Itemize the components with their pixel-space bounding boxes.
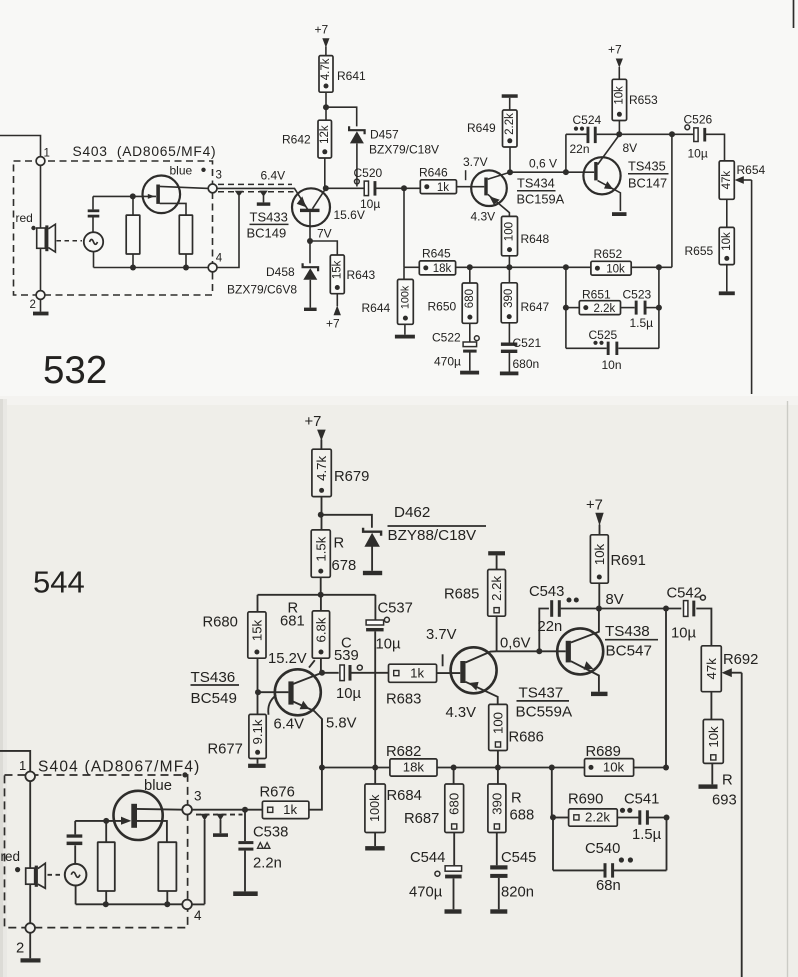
- svg-text:+7: +7: [586, 498, 603, 514]
- svg-text:TS434: TS434: [517, 176, 555, 191]
- TS435 ground bar: [612, 212, 627, 216]
- svg-text:R642: R642: [282, 133, 311, 147]
- svg-text:BC559A: BC559A: [516, 704, 573, 721]
- svg-text:4.3V: 4.3V: [471, 210, 496, 224]
- junction dot emitter/row: [319, 765, 325, 771]
- D458 lead and termination bar: [304, 280, 317, 311]
- svg-text:D462: D462: [394, 504, 430, 521]
- capacitor C539: [322, 665, 362, 681]
- R681 lead to collector node: [320, 658, 322, 673]
- dashed acoustic link: [57, 240, 83, 242]
- label 10u C539: [336, 686, 361, 702]
- label C543: [529, 584, 564, 600]
- svg-text:+7: +7: [326, 317, 340, 331]
- node 1: [36, 148, 50, 166]
- resistor R654: [719, 161, 734, 199]
- label R642: [282, 133, 311, 147]
- svg-text:BZX79/C18V: BZX79/C18V: [369, 143, 439, 157]
- TS433 base bar: [300, 209, 320, 212]
- svg-text:12k: 12k: [319, 125, 331, 144]
- node 4: [208, 253, 223, 272]
- svg-text:9.1k: 9.1k: [250, 719, 265, 744]
- label R684: [387, 788, 422, 804]
- measuring point symbol S404: [213, 814, 228, 837]
- svg-text:TS433: TS433: [250, 210, 288, 225]
- svg-text:1.5k: 1.5k: [313, 536, 328, 561]
- label TS436: [191, 669, 240, 686]
- svg-text:R: R: [722, 773, 733, 789]
- R685 lead to collector node: [496, 616, 498, 651]
- label BZX79/C18V: [369, 143, 439, 157]
- junction dot R650 top: [467, 264, 473, 270]
- bottom wire in S403: [94, 267, 209, 269]
- C538 marker triangles: [258, 843, 270, 849]
- resistor R688: [488, 768, 506, 833]
- microphone speaker symbol S404: [26, 863, 46, 888]
- label R643: [347, 268, 376, 282]
- svg-text:693: 693: [712, 793, 737, 809]
- wire 8V node to C526: [619, 133, 693, 135]
- svg-text:R641: R641: [337, 69, 366, 83]
- svg-text:2.2k: 2.2k: [585, 810, 610, 825]
- svg-text:10k: 10k: [603, 760, 625, 775]
- TS434 emitter arrow PNP: [489, 196, 500, 205]
- capacitor C522: [463, 323, 479, 352]
- svg-text:S403 (AD8065/MF4): S403 (AD8065/MF4): [73, 144, 217, 159]
- capacitor C542: [684, 595, 706, 616]
- wire feedback up to output node: [671, 134, 673, 267]
- svg-text:BC159A: BC159A: [517, 192, 565, 207]
- resistor R644: [398, 267, 414, 324]
- label 4.3V: [471, 210, 496, 224]
- svg-text:1.5µ: 1.5µ: [632, 827, 662, 843]
- label C522: [432, 331, 461, 345]
- svg-text:blue: blue: [170, 164, 193, 178]
- resistor R676: [262, 801, 309, 818]
- label D462: [394, 504, 430, 521]
- label 6.4V: [261, 169, 286, 183]
- gate arrow into FET channel S404: [121, 817, 131, 825]
- TS437 base bar: [460, 661, 465, 683]
- svg-text:R652: R652: [594, 247, 623, 261]
- svg-text:18k: 18k: [403, 760, 425, 775]
- wire to R690: [553, 817, 569, 819]
- C522 ground: [460, 353, 479, 375]
- resistor R689: [585, 759, 634, 777]
- svg-text:+7: +7: [315, 23, 329, 37]
- capacitor C520: [355, 179, 377, 196]
- wire base node down to D458: [309, 241, 311, 263]
- capacitor C521: [501, 323, 517, 353]
- label R692: [723, 652, 758, 668]
- TS436 collector lead: [293, 673, 322, 684]
- gate wire to FET S404: [75, 820, 121, 822]
- junction dot bias 1 bottom S404: [103, 901, 109, 907]
- capacitor C537: [366, 595, 389, 632]
- svg-text:TS435: TS435: [628, 159, 666, 174]
- svg-text:22n: 22n: [538, 619, 563, 635]
- svg-text:R646: R646: [419, 166, 448, 180]
- svg-text:R651: R651: [582, 288, 611, 302]
- node 3: [208, 170, 222, 193]
- svg-text:BC549: BC549: [191, 690, 237, 707]
- svg-text:3: 3: [216, 170, 222, 182]
- label 470u C522: [434, 355, 461, 369]
- transistor TS438 circle: [557, 628, 603, 674]
- transistor TS434 circle: [471, 170, 507, 206]
- label 0,6V: [500, 636, 531, 652]
- wire C539 to R683: [352, 672, 389, 674]
- capacitor C523: [621, 301, 659, 315]
- section number 544: [33, 565, 85, 600]
- FET drain wire to node 3 S404: [137, 808, 182, 811]
- label 10n C525: [602, 358, 622, 372]
- junction dot row right: [663, 765, 669, 771]
- zener diode D457: [349, 126, 365, 143]
- wire R646 to TS434 base: [457, 186, 485, 188]
- label D458: [266, 265, 295, 279]
- svg-text:R689: R689: [586, 744, 621, 760]
- zener diode D458: [303, 263, 319, 280]
- svg-text:R679: R679: [334, 469, 369, 485]
- svg-text:1: 1: [44, 148, 50, 160]
- resistor R680: [248, 595, 266, 658]
- shield connection arrow S404: [200, 814, 209, 821]
- svg-text:R: R: [334, 536, 345, 552]
- svg-text:539: 539: [334, 648, 359, 664]
- wire R692 to R693: [710, 692, 712, 720]
- bias resistor 2 (unlabeled) in S404: [158, 842, 176, 904]
- label TS438: [605, 623, 658, 640]
- C537 lead down to row: [374, 632, 376, 768]
- svg-text:R644: R644: [362, 301, 391, 315]
- svg-text:4.3V: 4.3V: [446, 705, 477, 721]
- label 10u C542: [671, 626, 696, 642]
- label 1.5u C523: [630, 316, 654, 330]
- TS433 base lead down: [309, 212, 311, 241]
- svg-text:2.2n: 2.2n: [253, 856, 282, 872]
- junction dot R690 branch: [549, 765, 555, 771]
- R678 lead down: [320, 577, 322, 595]
- label 680n C521: [513, 357, 540, 371]
- TS438 emitter arrow NPN: [584, 661, 594, 670]
- svg-text:C545: C545: [501, 850, 536, 866]
- wire shield arrow down to node 4: [192, 820, 205, 904]
- resistor R681: [312, 595, 329, 658]
- mic unit S404 dashed outline: [5, 775, 188, 928]
- label S403 (AD8065/MF4): [73, 144, 217, 159]
- svg-text:10k: 10k: [606, 263, 625, 275]
- junction dot bias 2 bottom S404: [164, 901, 170, 907]
- svg-text:6.8k: 6.8k: [314, 617, 329, 642]
- label C537: [378, 601, 413, 617]
- svg-text:red: red: [1, 849, 21, 864]
- svg-text:10µ: 10µ: [360, 197, 380, 211]
- wire C526 to R654: [706, 134, 725, 161]
- label 10u C520: [360, 197, 380, 211]
- label R 678: [332, 536, 357, 575]
- label C538: [253, 825, 288, 841]
- svg-text:TS438: TS438: [605, 623, 650, 640]
- wire from left edge to node 1 S404: [0, 751, 30, 772]
- label TS434: [517, 176, 556, 191]
- svg-text:R648: R648: [521, 232, 550, 246]
- junction dot bias resistor 1 bottom: [130, 265, 136, 271]
- svg-text:68n: 68n: [596, 878, 621, 894]
- svg-text:1k: 1k: [437, 182, 449, 194]
- scan page edge line bottom right: [787, 401, 789, 977]
- R644 ground: [395, 324, 415, 338]
- node 4 S404: [182, 900, 202, 923]
- svg-text:820n: 820n: [501, 885, 534, 901]
- D462 lead and termination bar: [363, 547, 382, 576]
- label 10u C526: [688, 147, 708, 161]
- resistor R643: [330, 255, 344, 294]
- TS438 base bar: [566, 641, 571, 663]
- svg-text:100k: 100k: [368, 794, 382, 822]
- gate arrow into FET channel: [148, 194, 155, 199]
- label 5.8V: [326, 716, 357, 732]
- svg-text:100: 100: [491, 712, 506, 734]
- svg-text:R683: R683: [386, 692, 421, 708]
- label 7V: [317, 227, 332, 241]
- R686 lead down: [497, 751, 499, 768]
- TS438 ground bar: [591, 692, 608, 696]
- transistor TS435 circle: [583, 157, 620, 194]
- svg-text:47k: 47k: [704, 658, 719, 680]
- resistor R692: [701, 646, 721, 692]
- label C525: [589, 328, 618, 342]
- TS438 emitter lead: [571, 661, 599, 692]
- signal wire node 3 to R676: [192, 809, 263, 811]
- feedback vertical 8V to row: [665, 609, 667, 768]
- junction dot feedback network right: [656, 264, 662, 270]
- svg-text:680n: 680n: [513, 357, 540, 371]
- label C526: [684, 113, 713, 127]
- svg-text:R643: R643: [347, 268, 376, 282]
- label 22n C524: [570, 142, 590, 156]
- svg-text:C520: C520: [354, 166, 383, 180]
- svg-text:10µ: 10µ: [336, 686, 361, 702]
- junction dot R641/R642/D457: [323, 104, 329, 110]
- TS433 collector lead: [313, 188, 326, 208]
- resistor R685: [488, 570, 506, 617]
- svg-text:R645: R645: [422, 247, 451, 261]
- bias resistor 1 (unlabeled) in S403: [126, 196, 140, 267]
- resistor R678: [311, 530, 330, 577]
- shield dashed line upper: [218, 183, 292, 185]
- label R 688: [510, 791, 535, 824]
- label 2.2n C538: [253, 856, 282, 872]
- signal wire node 3 to TS433 emitter: [217, 188, 308, 209]
- svg-text:1k: 1k: [283, 802, 297, 817]
- capacitor C538: [238, 810, 253, 892]
- wire R679 to R678: [321, 497, 323, 530]
- label R677: [208, 742, 243, 758]
- label BC149: [247, 226, 287, 241]
- R653 lead down: [618, 121, 620, 135]
- svg-text:1.5µ: 1.5µ: [630, 316, 654, 330]
- label 22n C543: [538, 619, 563, 635]
- resistor R679: [312, 449, 331, 496]
- supply +7 arrow above R653: [608, 43, 623, 80]
- wire R680 to R677 with base tap: [257, 658, 259, 714]
- junction dot gate wire / R bias 1: [130, 193, 136, 199]
- wire node 4 up to shield arrow: [217, 196, 239, 268]
- arrow into R692: [722, 668, 742, 677]
- zener diode D462: [363, 528, 381, 547]
- node 2: [30, 291, 45, 311]
- wire node 1 to speaker: [40, 165, 42, 228]
- label R650: [428, 300, 457, 314]
- arrow into R654: [735, 176, 752, 184]
- resistor R655: [719, 227, 734, 264]
- label BC549: [191, 690, 237, 707]
- svg-text:R684: R684: [387, 788, 422, 804]
- resistor R651: [566, 301, 621, 315]
- resistor R693: [703, 720, 723, 764]
- supply +7 arrow above R691: [586, 498, 604, 535]
- svg-text:10k: 10k: [706, 726, 721, 748]
- TS434 collector lead: [488, 172, 510, 179]
- shield dashed line lower: [218, 191, 294, 193]
- node 3 S404: [182, 789, 201, 815]
- junction dot TS433 base node 7V: [307, 238, 313, 244]
- junction dot R678/R681: [318, 592, 324, 598]
- wire AC source bottom: [93, 252, 95, 268]
- junction dot TS436 collector: [319, 670, 325, 676]
- svg-text:2: 2: [16, 941, 24, 957]
- svg-text:C541: C541: [624, 792, 659, 808]
- junction dot bias resistor 2 bottom: [183, 265, 189, 271]
- wire from left edge to node 1: [0, 136, 41, 157]
- junction dot output feedback 544: [663, 606, 669, 612]
- label TS433: [250, 210, 289, 225]
- svg-text:100k: 100k: [399, 285, 411, 309]
- label R653: [629, 93, 658, 107]
- svg-text:544: 544: [33, 565, 85, 600]
- wire base node to R643: [310, 241, 337, 255]
- wire to C524: [566, 133, 587, 135]
- svg-text:TS436: TS436: [191, 669, 236, 686]
- measuring point symbol 6.4V: [257, 191, 271, 206]
- junction dot C524 tap: [563, 169, 569, 175]
- label 6.4V: [274, 717, 305, 733]
- svg-text:D458: D458: [266, 265, 295, 279]
- capacitor C544: [435, 833, 462, 879]
- svg-text:C544: C544: [410, 850, 445, 866]
- TS435 emitter arrow NPN: [604, 181, 613, 189]
- scan mark top right corner: [793, 0, 795, 28]
- svg-text:2: 2: [30, 299, 36, 311]
- wire feedback row right: [631, 266, 672, 268]
- resistor R647: [501, 267, 517, 323]
- svg-text:470µ: 470µ: [434, 355, 461, 369]
- svg-text:TS437: TS437: [519, 685, 564, 702]
- label R646: [419, 166, 448, 180]
- wire R642 to collector node: [324, 158, 326, 187]
- label 3.7V with leader: [426, 627, 457, 666]
- shield connection arrow: [235, 191, 243, 197]
- svg-text:0,6 V: 0,6 V: [529, 157, 557, 171]
- ground below node 2 S404: [21, 933, 41, 963]
- wire feedback tap down: [403, 188, 405, 267]
- C538 ground: [233, 891, 258, 896]
- resistor R648: [502, 216, 518, 255]
- label R 681: [280, 601, 305, 630]
- svg-text:R676: R676: [260, 785, 295, 801]
- junction dot feedback network left: [563, 264, 569, 270]
- svg-text:100: 100: [504, 222, 516, 241]
- R690 branch vertical: [551, 768, 553, 818]
- TS435 collector lead: [598, 135, 620, 165]
- svg-text:4: 4: [194, 908, 202, 923]
- label 3.7V with leader: [463, 155, 488, 180]
- AC source symbol S403: [84, 232, 103, 251]
- label C520: [354, 166, 383, 180]
- capacitor C541: [617, 808, 649, 825]
- label R641: [337, 69, 366, 83]
- svg-text:3.7V: 3.7V: [463, 155, 488, 169]
- resistor R686: [489, 704, 508, 750]
- wire C541 right: [648, 817, 666, 819]
- label R685: [444, 587, 479, 603]
- svg-text:10µ: 10µ: [671, 626, 696, 642]
- R648 lead down: [508, 256, 510, 267]
- svg-text:2.2k: 2.2k: [489, 576, 504, 601]
- resistor R649: [503, 110, 518, 172]
- node 1 S404: [19, 758, 35, 781]
- svg-text:7V: 7V: [317, 227, 332, 241]
- svg-text:R: R: [511, 791, 522, 807]
- svg-text:BC149: BC149: [247, 226, 287, 241]
- svg-text:R649: R649: [467, 121, 496, 135]
- svg-text:BZX79/C6V8: BZX79/C6V8: [227, 283, 297, 297]
- label red S404: [1, 849, 21, 872]
- junction dot C543 tap: [536, 648, 542, 654]
- resistor R650: [462, 267, 477, 323]
- svg-text:R647: R647: [521, 300, 550, 314]
- bias resistor 2 (unlabeled) in S403: [179, 215, 192, 267]
- svg-text:390: 390: [503, 289, 515, 308]
- svg-text:15k: 15k: [331, 260, 343, 279]
- label S404 (AD8067/MF4): [38, 759, 201, 776]
- svg-text:10n: 10n: [602, 358, 622, 372]
- svg-text:6.4V: 6.4V: [274, 717, 305, 733]
- label 4.3V: [446, 705, 477, 721]
- TS438 collector lead: [571, 609, 599, 643]
- capacitor C526: [685, 125, 706, 142]
- wire feedback row middle: [456, 266, 591, 268]
- svg-text:532: 532: [43, 349, 107, 392]
- svg-text:BC147: BC147: [628, 176, 667, 191]
- C521 ground: [500, 353, 519, 375]
- label R654: [737, 163, 766, 177]
- svg-text:BZY88/C18V: BZY88/C18V: [388, 527, 478, 544]
- label C541: [624, 792, 659, 808]
- TS434 emitter lead: [488, 194, 510, 216]
- svg-text:C526: C526: [684, 113, 713, 127]
- svg-text:18k: 18k: [433, 263, 452, 275]
- label BC159A: [517, 192, 565, 207]
- label C521: [513, 336, 542, 350]
- svg-text:5.8V: 5.8V: [326, 716, 357, 732]
- label C540: [585, 841, 620, 857]
- svg-text:6.4V: 6.4V: [261, 169, 286, 183]
- svg-text:R680: R680: [203, 615, 238, 631]
- svg-text:1k: 1k: [410, 665, 424, 680]
- junction dot R687 top: [451, 765, 457, 771]
